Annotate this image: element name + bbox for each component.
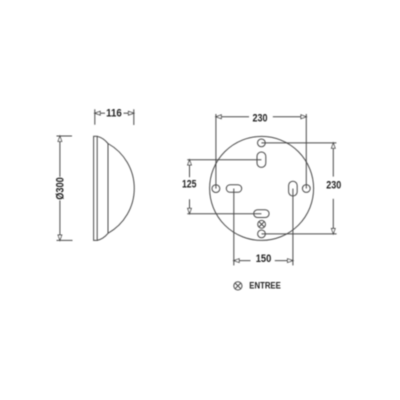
svg-text:125: 125 <box>182 178 197 190</box>
svg-text:116: 116 <box>106 107 122 119</box>
svg-text:ENTREE: ENTREE <box>249 281 280 291</box>
svg-text:Ø300: Ø300 <box>55 177 67 200</box>
svg-text:230: 230 <box>253 112 268 124</box>
svg-text:230: 230 <box>326 179 341 191</box>
svg-text:150: 150 <box>256 253 272 265</box>
